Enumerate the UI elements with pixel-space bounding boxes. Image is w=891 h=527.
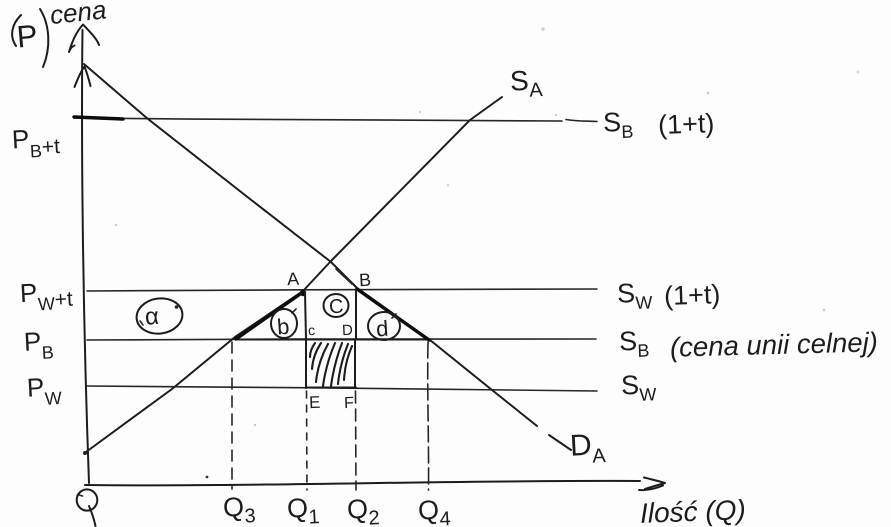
svg-text:PB+t: PB+t (11, 122, 61, 162)
svg-text:Ilość (Q): Ilość (Q) (639, 494, 746, 527)
svg-text:d: d (375, 316, 389, 342)
svg-text:α: α (144, 303, 160, 331)
svg-text:cena: cena (48, 0, 107, 30)
svg-text:E: E (309, 393, 321, 412)
svg-text:C: C (328, 296, 344, 319)
svg-text:(1+t): (1+t) (657, 108, 714, 140)
svg-text:B: B (358, 270, 371, 291)
svg-text:c: c (308, 322, 316, 338)
svg-text:Q2: Q2 (346, 493, 380, 527)
svg-text:(cena unii celnej): (cena unii celnej) (670, 326, 879, 362)
svg-text:SB: SB (602, 107, 633, 143)
svg-text:Q4: Q4 (417, 494, 451, 527)
svg-text:PW: PW (26, 371, 62, 410)
svg-text:F: F (344, 395, 355, 412)
svg-text:PW+t: PW+t (19, 276, 73, 316)
svg-text:b: b (276, 314, 290, 340)
svg-text:P: P (15, 18, 39, 55)
svg-text:Q3: Q3 (222, 491, 256, 527)
svg-text:SW: SW (616, 277, 652, 313)
svg-text:SA: SA (509, 64, 544, 103)
svg-text:PB: PB (23, 325, 54, 363)
svg-text:D: D (342, 322, 354, 340)
svg-text:A: A (286, 269, 299, 290)
svg-text:(1+t): (1+t) (663, 279, 720, 311)
svg-text:SW: SW (620, 369, 656, 405)
svg-text:DA: DA (569, 428, 607, 469)
svg-text:SB: SB (618, 325, 649, 361)
svg-text:Q1: Q1 (286, 492, 320, 527)
